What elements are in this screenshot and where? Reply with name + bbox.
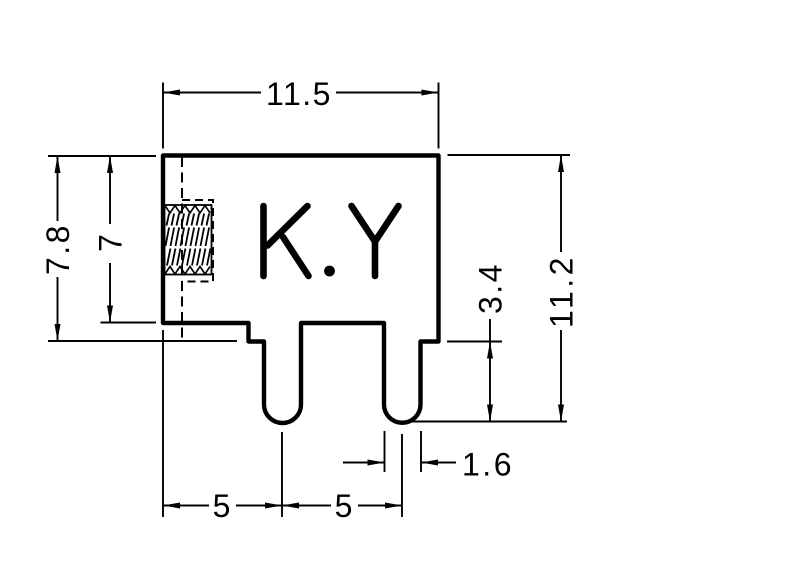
hatch top zigzag bbox=[165, 206, 210, 214]
hatch bottom zigzag bbox=[165, 267, 210, 275]
dimension 5 extension lines bbox=[163, 330, 402, 517]
left shared top extension line bbox=[48, 155, 156, 157]
dashed hidden outline rectangle of clip bbox=[182, 200, 213, 282]
dimension 5 first arrowheads bbox=[163, 503, 180, 509]
marking text Y stroke bbox=[352, 206, 399, 276]
dimension 7 bottom extension line bbox=[101, 322, 157, 324]
dimension 11.5 line bbox=[163, 92, 439, 94]
marking text K stroke bbox=[264, 206, 309, 276]
dimension 7 arrowheads bbox=[107, 156, 113, 173]
hatch interior strokes bbox=[166, 214, 211, 266]
svg-text:7.8: 7.8 bbox=[40, 223, 76, 275]
dimension 7.8 arrowheads bbox=[55, 156, 61, 173]
dimension 1.6 arrowheads bbox=[368, 460, 385, 466]
svg-text:11.5: 11.5 bbox=[266, 76, 332, 112]
dimension 11.2 arrowheads bbox=[558, 155, 564, 172]
dimension 11.5 arrowheads bbox=[163, 90, 180, 96]
svg-text:3.4: 3.4 bbox=[473, 262, 509, 314]
dimension 11.5 extension lines bbox=[163, 83, 439, 149]
svg-text:5: 5 bbox=[335, 488, 355, 524]
bottom long extension line bbox=[410, 421, 567, 423]
svg-text:11.2: 11.2 bbox=[544, 254, 580, 328]
dimension 7.8 bottom extension line bbox=[48, 340, 237, 342]
dimension 5 second line bbox=[282, 505, 402, 507]
marking text period bbox=[324, 266, 335, 277]
dimension 3.4 tick extension line bbox=[447, 341, 502, 343]
svg-text:1.6: 1.6 bbox=[462, 447, 514, 483]
component body outline with two pins bbox=[163, 156, 439, 424]
dimension 3.4 arrowheads bbox=[487, 342, 493, 359]
dimension 3.4 line bbox=[489, 319, 491, 422]
dimension 5 second arrowheads bbox=[282, 503, 299, 509]
dimension 11.2 line bbox=[560, 155, 562, 422]
dimension 7.8 line bbox=[57, 156, 59, 341]
dimension 1.6 outside lines bbox=[343, 462, 456, 464]
svg-text:7: 7 bbox=[93, 232, 129, 252]
dimension 1.6 extension lines bbox=[385, 431, 422, 472]
dimension 11.2 top extension line bbox=[448, 154, 571, 156]
dimension 5 first line bbox=[163, 505, 282, 507]
svg-text:5: 5 bbox=[213, 488, 233, 524]
dimension 7 line bbox=[109, 156, 111, 323]
dashed centerline of mounting clip bbox=[181, 157, 183, 341]
hatched clip block border bbox=[165, 205, 212, 275]
